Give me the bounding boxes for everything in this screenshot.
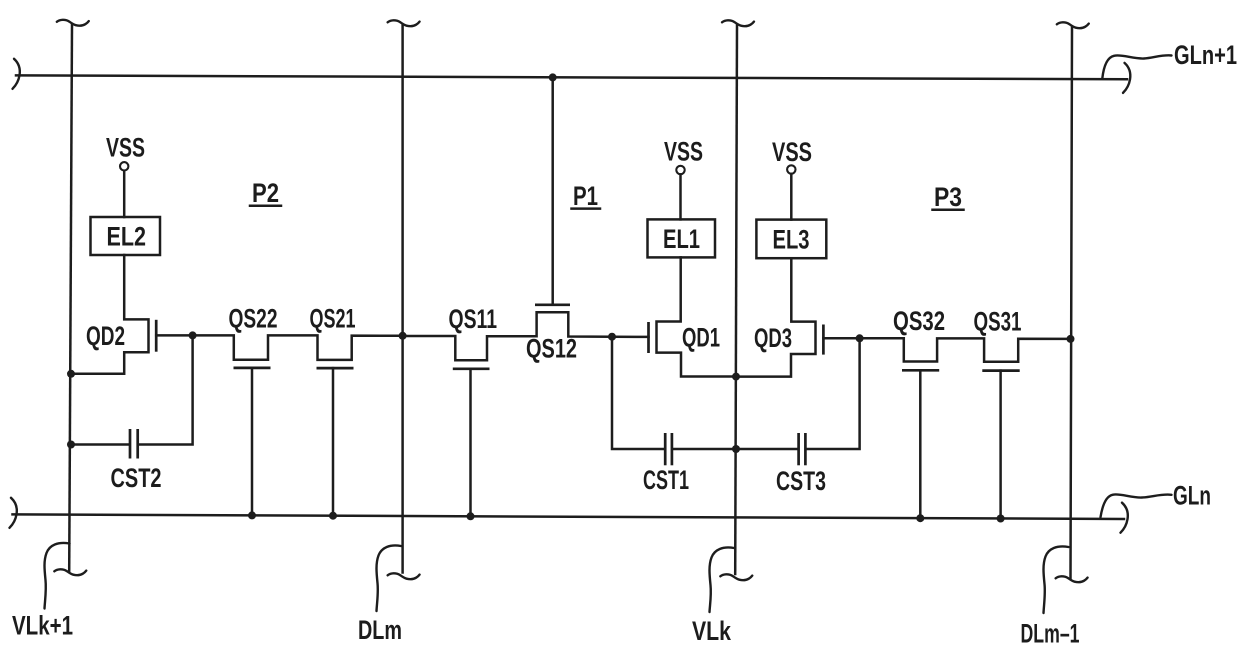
svg-text:EL2: EL2: [107, 222, 147, 252]
wire CST1 to VLk: [673, 448, 736, 451]
wire QS21 gate to GLn: [332, 368, 335, 516]
svg-text:QS22: QS22: [229, 303, 278, 333]
VSS terminal (left, for EL2): [106, 133, 145, 171]
svg-text:CST2: CST2: [111, 463, 162, 493]
leader line to VLk label: [710, 547, 735, 612]
svg-text:GLn: GLn: [1173, 481, 1211, 511]
capacitor CST2 right plate: [136, 429, 139, 459]
leader line to GLn label: [1101, 494, 1172, 517]
OLED EL1: [648, 219, 716, 257]
break symbol right end of GLn: [1121, 503, 1128, 533]
leader line to VLk+1 label: [45, 543, 70, 609]
svg-text:P2: P2: [252, 178, 279, 208]
transistor QD3 body: drain from EL3, source to VLk: [736, 258, 816, 376]
OLED EL2: [91, 217, 161, 255]
wire CST3 to rail node: [807, 338, 860, 449]
node QS22 gate on GLn: [248, 511, 256, 519]
node QD1/QD3 source on VLk: [732, 373, 740, 381]
wire: DLm to QD1 gate rail with QS11/QS12 channels: [403, 312, 649, 360]
break tilde top of DLm: [388, 20, 420, 26]
capacitor CST2 left plate: [129, 429, 132, 459]
svg-text:QS21: QS21: [310, 303, 356, 333]
svg-text:QS32: QS32: [893, 306, 945, 336]
svg-text:P3: P3: [934, 182, 962, 212]
gate bar QD2: [155, 320, 158, 352]
break tilde top of VLk: [722, 20, 754, 26]
wire VLk to CST3: [736, 448, 797, 451]
svg-text:QD2: QD2: [86, 321, 125, 351]
svg-text:DLm: DLm: [358, 615, 402, 645]
wire QS11 gate to GLn: [469, 369, 472, 517]
node: rail to DLm junction: [399, 332, 407, 340]
capacitor CST1 right plate: [671, 433, 674, 465]
voltage line VLk: [735, 26, 737, 575]
svg-text:VLk: VLk: [692, 616, 731, 646]
break symbol left end of GLn: [10, 498, 17, 528]
wire: QD2 gate node rail with QS22/QS21 channels to DLm: [156, 335, 402, 360]
wire QS22 gate to GLn: [251, 368, 254, 516]
label P2: [250, 178, 281, 208]
svg-text:CST1: CST1: [643, 465, 689, 495]
svg-text:QD1: QD1: [682, 323, 720, 353]
transistor QS21 gate bar: [317, 367, 354, 370]
leader line to GLn+1 label: [1102, 55, 1171, 78]
svg-text:QS12: QS12: [526, 334, 577, 364]
wire VSS to EL1: [679, 174, 682, 219]
transistor QS22 gate bar: [234, 367, 271, 370]
break tilde bottom of VLk: [720, 574, 752, 580]
break tilde bottom of VLk+1: [54, 569, 86, 575]
transistor QD2 (drive, body: drain from EL2, source to VLk+1): [71, 255, 149, 374]
wire QS31 gate to GLn: [999, 371, 1002, 519]
svg-text:VSS: VSS: [106, 133, 145, 163]
node QD2 source on VLk+1: [67, 370, 75, 378]
svg-text:GLn+1: GLn+1: [1174, 40, 1237, 70]
node QS32 gate on GLn: [916, 514, 924, 522]
wire VLk+1 to CST2: [71, 443, 129, 446]
OLED EL3: [756, 220, 826, 259]
VSS terminal (right, for EL3): [772, 137, 812, 174]
break tilde top of DLm-1: [1057, 22, 1089, 28]
wire QS32 gate to GLn: [919, 370, 922, 518]
svg-text:CST3: CST3: [776, 466, 826, 496]
gate line GLn: [13, 514, 1125, 519]
break tilde bottom of DLm: [388, 573, 420, 579]
svg-text:EL1: EL1: [663, 224, 700, 254]
capacitor CST3 left plate: [797, 433, 800, 465]
break symbol left end of GLn+1: [13, 59, 20, 89]
transistor QD3 gate bar: [822, 325, 825, 355]
node: CST1 junction on rail: [608, 333, 616, 341]
node QS21 gate on GLn: [329, 512, 337, 520]
transistor QS32 gate bar: [902, 369, 939, 372]
voltage line VLk+1: [69, 25, 72, 572]
label P3: [933, 182, 964, 212]
node QS12 gate on GLn+1: [549, 73, 557, 81]
svg-text:VSS: VSS: [772, 137, 812, 167]
svg-text:DLm–1: DLm–1: [1021, 619, 1080, 649]
transistor QS11 gate bar: [453, 367, 490, 370]
node CST2 on VLk+1: [67, 441, 75, 449]
transistor QD1 gate bar: [647, 322, 650, 353]
svg-text:EL3: EL3: [773, 225, 810, 255]
node: CST3 junction on rail: [856, 334, 864, 342]
break tilde bottom of DLm-1: [1056, 576, 1088, 582]
svg-text:VSS: VSS: [664, 137, 703, 167]
node: QD2 gate / CST2 junction: [189, 331, 197, 339]
transistor QD1 body: drain from EL1, source to VLk: [657, 257, 737, 376]
transistor QS31 gate bar: [982, 369, 1019, 372]
data line DLm: [401, 26, 404, 573]
svg-text:QS11: QS11: [449, 304, 498, 334]
leader line to DLm label: [377, 545, 402, 611]
wire CST2 to QD2 gate node: [139, 335, 193, 444]
leader line to DLm-1 label: [1044, 546, 1069, 613]
svg-text:QS31: QS31: [974, 307, 1022, 337]
VSS terminal (middle, for EL1): [664, 137, 703, 175]
node QS11 gate on GLn: [467, 512, 475, 520]
transistor QS12 gate bar (gate up): [535, 303, 570, 306]
svg-text:QD3: QD3: [754, 323, 792, 353]
break symbol right end of GLn+1: [1123, 63, 1130, 93]
wire VSS to EL3: [790, 174, 793, 220]
gate line GLn+1: [16, 75, 1127, 79]
data line DLm-1: [1071, 28, 1073, 579]
node: rail to DLm-1 junction: [1067, 335, 1075, 343]
wire rail node to CST1: [612, 337, 664, 449]
node QS31 gate on GLn: [997, 515, 1005, 523]
node CST1/CST3 on VLk: [732, 445, 740, 453]
svg-text:VLk+1: VLk+1: [12, 611, 73, 641]
wire: QD3 gate rail with QS32/QS31 channels to DLm-1: [823, 338, 1070, 362]
break tilde top of VLk+1: [57, 20, 89, 26]
capacitor CST3 right plate: [804, 433, 807, 465]
svg-text:P1: P1: [573, 181, 598, 211]
wire VSS to EL2: [123, 171, 126, 217]
capacitor CST1 left plate: [664, 433, 667, 465]
wire QS12 gate to GLn+1: [551, 77, 554, 304]
label P1: [572, 181, 601, 211]
